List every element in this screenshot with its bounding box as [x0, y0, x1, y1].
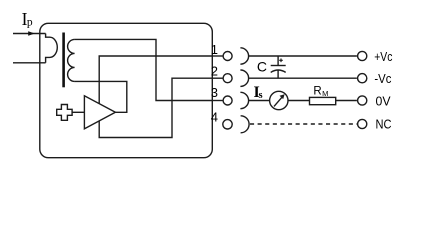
secondary winding L1	[68, 39, 75, 81]
wire row3 arc to ammeter	[249, 100, 270, 102]
wire row1 to +Vc	[249, 55, 357, 57]
wire row2 to -Vc	[249, 77, 357, 79]
arrow Ip	[28, 31, 35, 36]
pin 1 circle	[223, 52, 232, 61]
svg-text:M: M	[322, 89, 328, 98]
wire RM to 0V	[336, 100, 357, 102]
wire row4 dashed NC	[250, 123, 357, 125]
transducer box	[40, 23, 213, 157]
pin 1 stub	[212, 55, 222, 57]
terminal 0V	[358, 96, 367, 105]
svg-text:R: R	[313, 85, 321, 97]
wire coil-top to pin3	[75, 39, 213, 100]
ammeter M1	[270, 91, 288, 109]
pin 4 circle	[223, 120, 232, 129]
capacitor C curved plate	[271, 70, 286, 72]
wire ammeter to RM	[288, 100, 310, 102]
pin 3 stub	[212, 100, 222, 102]
pin 2 connector arc	[240, 70, 248, 86]
terminal NC	[358, 119, 367, 128]
wire amp negative supply to pin2	[99, 78, 212, 137]
capacitor C stem bottom	[277, 70, 279, 78]
hall element	[57, 105, 72, 121]
svg-text:1: 1	[211, 42, 218, 57]
pin 4 connector arc	[241, 116, 250, 133]
svg-text:p: p	[27, 17, 33, 29]
core	[62, 33, 65, 88]
capacitor plus mark	[279, 59, 283, 63]
wire primary-out	[13, 62, 46, 64]
pin 2 circle	[223, 74, 232, 83]
svg-text:s: s	[259, 90, 263, 101]
svg-text:NC: NC	[376, 116, 392, 131]
svg-text:4: 4	[211, 110, 218, 125]
svg-text:-Vc: -Vc	[374, 71, 391, 86]
svg-text:C: C	[257, 59, 267, 75]
ammeter needle	[274, 97, 282, 106]
capacitor C stem top	[277, 56, 279, 66]
ammeter needle head	[280, 94, 285, 99]
resistor RM	[310, 97, 336, 104]
terminal +Vc	[358, 51, 367, 60]
wire hall to amp	[72, 111, 84, 113]
wire coil-bottom to amp output	[75, 81, 127, 112]
svg-text:0V: 0V	[376, 93, 391, 108]
svg-text:+Vc: +Vc	[374, 49, 393, 64]
wire pin1 to amp positive supply	[99, 56, 212, 104]
wire primary-in	[13, 33, 46, 35]
pin 2 stub	[212, 77, 222, 79]
svg-text:3: 3	[211, 85, 218, 100]
capacitor C plate	[271, 65, 286, 67]
pin 3 circle	[223, 96, 232, 105]
pin 3 connector arc	[240, 92, 248, 108]
pin 1 connector arc	[240, 48, 248, 64]
op-amp U1	[84, 96, 115, 129]
svg-text:2: 2	[211, 63, 218, 78]
primary winding	[46, 34, 58, 63]
terminal -Vc	[358, 74, 367, 83]
